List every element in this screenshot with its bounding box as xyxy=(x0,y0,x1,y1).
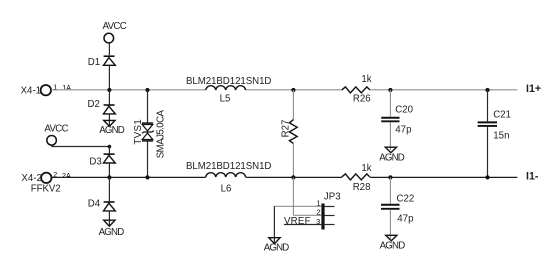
wire R27 top xyxy=(292,90,294,120)
svg-text:2: 2 xyxy=(53,171,57,179)
svg-text:AVCC: AVCC xyxy=(103,21,127,32)
TVS diode TVS1 SMAJ5.0CA xyxy=(133,109,167,158)
svg-text:2A: 2A xyxy=(62,172,71,180)
ground AGND (C22) xyxy=(380,235,406,251)
diode D1 xyxy=(88,56,116,90)
svg-text:D1: D1 xyxy=(88,57,100,68)
junction wire1 / R27 xyxy=(291,88,295,92)
resistor R28 1k xyxy=(342,163,372,193)
svg-text:47p: 47p xyxy=(397,213,413,224)
supply AVCC (mid) xyxy=(44,124,68,147)
svg-text:C22: C22 xyxy=(397,193,415,204)
svg-text:I1-: I1- xyxy=(526,170,539,182)
svg-text:L5: L5 xyxy=(220,93,231,104)
svg-text:AGND: AGND xyxy=(379,152,405,163)
inductor L6 BLM21BD121SN1D xyxy=(186,161,271,194)
wire C21 top xyxy=(487,90,489,121)
svg-text:I1+: I1+ xyxy=(526,83,541,95)
svg-text:AGND: AGND xyxy=(99,125,125,136)
svg-text:VREF: VREF xyxy=(284,216,311,227)
resistor R26 1k xyxy=(342,74,372,105)
junction wire1 / C21 xyxy=(485,88,489,92)
svg-text:D3: D3 xyxy=(89,157,101,168)
svg-text:AVCC: AVCC xyxy=(44,124,68,135)
svg-text:X4-2: X4-2 xyxy=(21,173,41,184)
supply AVCC (top) xyxy=(103,21,127,55)
svg-text:R28: R28 xyxy=(353,182,371,193)
diode D2 xyxy=(88,90,116,125)
junction wire2 / TVS xyxy=(145,175,149,179)
wire AVCC to D3 xyxy=(52,146,110,148)
connector X4-2 xyxy=(21,171,71,194)
junction wire2 / D column xyxy=(107,175,111,179)
svg-text:BLM21BD121SN1D: BLM21BD121SN1D xyxy=(186,161,271,172)
ground AGND (D4) xyxy=(99,220,125,238)
diode D3 xyxy=(89,154,115,177)
svg-text:SMAJ5.0CA: SMAJ5.0CA xyxy=(156,109,167,158)
ground AGND (D2) xyxy=(99,120,125,136)
svg-text:AGND: AGND xyxy=(264,242,290,253)
wire JP3 pin2 to wire2 xyxy=(292,177,294,215)
wire TVS column bottom xyxy=(147,141,149,178)
svg-text:1k: 1k xyxy=(361,74,371,85)
ground AGND (JP3) xyxy=(264,238,290,254)
wire C22 bottom xyxy=(389,210,391,239)
wire R27 bottom xyxy=(292,143,294,177)
resistor R27 (vertical) xyxy=(280,120,297,144)
svg-text:AGND: AGND xyxy=(380,241,406,252)
inductor L5 BLM21BD121SN1D xyxy=(186,76,271,104)
svg-text:R26: R26 xyxy=(353,94,371,105)
junction wire2 / C21 xyxy=(485,175,489,179)
capacitor C22 47p xyxy=(381,193,414,224)
svg-text:C21: C21 xyxy=(493,109,511,120)
svg-text:C20: C20 xyxy=(395,104,413,115)
connector X4-1 xyxy=(21,83,72,96)
wire JP3 pin1 to AGND xyxy=(274,205,321,207)
svg-text:47p: 47p xyxy=(395,124,411,135)
svg-text:JP3: JP3 xyxy=(324,191,341,202)
svg-text:D2: D2 xyxy=(88,99,100,110)
wire C20 bottom xyxy=(389,122,391,150)
junction wire1 / D column xyxy=(107,88,111,92)
junction wire1 / C20 xyxy=(388,88,392,92)
junction wire2 / R27 / JP3 xyxy=(291,175,295,179)
svg-text:FFKV2: FFKV2 xyxy=(31,184,61,195)
svg-text:D4: D4 xyxy=(88,198,101,209)
capacitor C20 47p xyxy=(381,104,413,135)
net label VREF on pin3 wire xyxy=(284,216,322,227)
wire C21 bottom xyxy=(487,127,489,177)
wire net I1- horizontal segments xyxy=(52,176,518,178)
svg-text:L6: L6 xyxy=(221,183,232,194)
ground AGND (C20) xyxy=(379,147,405,163)
junction wire1 / TVS xyxy=(145,88,149,92)
svg-text:15n: 15n xyxy=(493,130,509,141)
jumper JP3 xyxy=(316,191,340,229)
svg-text:1A: 1A xyxy=(62,84,71,92)
svg-text:1k: 1k xyxy=(361,163,371,174)
svg-text:X4-1: X4-1 xyxy=(21,86,41,97)
capacitor C21 15n xyxy=(478,109,511,141)
node corner dot xyxy=(108,145,112,149)
wire net I1+ horizontal segments xyxy=(51,89,517,91)
svg-text:AGND: AGND xyxy=(99,227,125,238)
wire C22 top xyxy=(389,177,391,203)
junction wire2 / C22 xyxy=(388,175,392,179)
wire TVS column top xyxy=(147,90,149,123)
diode D4 xyxy=(88,177,116,225)
wire C20 top xyxy=(389,90,391,117)
